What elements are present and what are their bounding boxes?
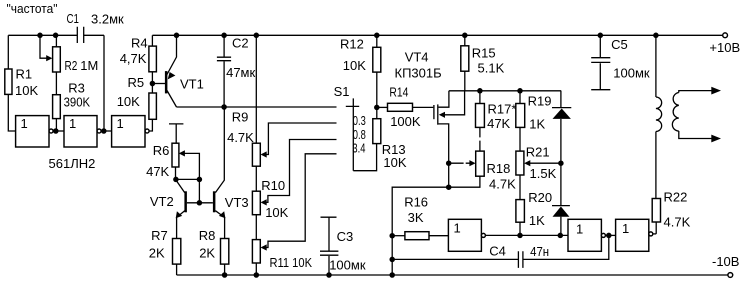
- MOSFET VT4 gate bar: [433, 105, 435, 119]
- svg-text:-10В: -10В: [712, 254, 739, 269]
- node: R11 bottom dot: [254, 272, 260, 278]
- resistor R3: [53, 95, 61, 119]
- svg-text:4,7K: 4,7K: [120, 51, 147, 66]
- inverter gate DD1.2: [64, 116, 97, 147]
- svg-text:4.7K: 4.7K: [664, 214, 691, 229]
- wire: R6 bottom to node: [176, 167, 200, 179]
- resistor R15: [464, 35, 466, 46]
- wire: R2 to R3: [55, 72, 57, 95]
- arrowhead into R10: [261, 199, 267, 205]
- potentiometer R11: [252, 240, 260, 263]
- wire: R17-R18 gang link (gapped): [479, 127, 481, 151]
- svg-text:100мк: 100мк: [329, 257, 366, 272]
- arrowhead into R9: [261, 151, 267, 157]
- svg-text:4.7K: 4.7K: [489, 177, 516, 192]
- svg-text:R21: R21: [526, 144, 550, 159]
- wire: R10 wiper to S1 contact 3: [264, 140, 337, 203]
- transistor VT3: [213, 191, 216, 212]
- svg-text:1: 1: [69, 116, 76, 131]
- svg-text:R20: R20: [528, 190, 552, 205]
- svg-text:R9: R9: [232, 109, 249, 124]
- resistor R5: [149, 93, 157, 119]
- svg-text:R8: R8: [199, 228, 216, 243]
- svg-text:+10В: +10В: [709, 40, 740, 55]
- wire: R18 bottom to drop line: [392, 176, 480, 275]
- node: gate2 output dot: [101, 128, 107, 134]
- svg-text:10K: 10K: [15, 83, 38, 98]
- arrowhead into R6: [179, 150, 185, 156]
- svg-text:R1: R1: [16, 67, 33, 82]
- svg-text:R2: R2: [65, 58, 78, 73]
- inverter gate DD1.4: [448, 219, 481, 251]
- svg-text:2K: 2K: [149, 245, 165, 260]
- node: C5 rail dot: [598, 33, 604, 39]
- resistor R12: [376, 35, 378, 47]
- svg-text:1: 1: [117, 116, 124, 131]
- svg-text:C4: C4: [489, 244, 506, 259]
- arrowhead into R18: [469, 160, 475, 166]
- node: wiper dot on rail: [37, 33, 43, 39]
- svg-text:1M: 1M: [80, 58, 98, 73]
- capacitor C2: [223, 35, 225, 57]
- arrowhead into R2: [46, 55, 52, 61]
- transformer T1 primary: [655, 35, 657, 97]
- wire: R6 wiper: [183, 153, 200, 203]
- terminal -10V: [728, 273, 733, 278]
- transistor VT2: [176, 180, 185, 193]
- node: VD2 bottom dot: [558, 233, 564, 239]
- svg-text:3K: 3K: [408, 210, 424, 225]
- svg-text:100K: 100K: [390, 114, 421, 129]
- resistor R1: [7, 35, 9, 69]
- svg-text:100мк: 100мк: [613, 66, 650, 81]
- wire: secondary top output with arrow: [679, 91, 713, 93]
- svg-text:R22: R22: [664, 190, 688, 205]
- potentiometer R9: [252, 143, 260, 166]
- svg-text:47мк: 47мк: [226, 65, 255, 80]
- arrowhead into R11: [261, 244, 267, 250]
- diode VD1: [560, 91, 562, 107]
- svg-text:1: 1: [622, 221, 629, 236]
- svg-text:R11 10K: R11 10K: [270, 255, 313, 270]
- wire: source node rail y91: [449, 90, 561, 92]
- resistor R14: [377, 106, 388, 108]
- svg-text:390K: 390K: [64, 94, 91, 109]
- svg-text:1K: 1K: [529, 117, 545, 132]
- wire: top-left rail (частота net): [8, 34, 77, 36]
- node: gate1 output dot: [53, 128, 59, 134]
- node: wiper/diode line dot: [558, 160, 564, 166]
- diode VD2: [552, 205, 570, 207]
- svg-text:R17*: R17*: [488, 101, 517, 116]
- resistor R16: [392, 235, 405, 237]
- node: VT1 base dot: [150, 81, 156, 87]
- potentiometer R10: [252, 191, 260, 215]
- svg-text:S1: S1: [334, 84, 350, 99]
- svg-text:1: 1: [576, 221, 583, 236]
- svg-text:R15: R15: [472, 46, 496, 61]
- arrowhead into R21: [524, 160, 530, 166]
- capacitor C5 with chassis stub: [599, 35, 601, 57]
- svg-text:C2: C2: [232, 35, 249, 50]
- svg-text:R7: R7: [151, 228, 168, 243]
- node: R9 rail dot: [254, 33, 260, 39]
- potentiometer R18: [476, 151, 485, 176]
- resistor R20: [516, 200, 525, 223]
- node: transformer rail dot: [653, 33, 659, 39]
- svg-text:R6: R6: [153, 143, 170, 158]
- MOSFET VT4 drain lead up to node: [439, 91, 449, 107]
- node: R19 top dot: [517, 88, 523, 94]
- switch S1 frame bottom and riser to R13: [353, 144, 376, 171]
- svg-text:10K: 10K: [265, 205, 288, 220]
- node: gate5 out dot: [606, 233, 612, 239]
- potentiometer R21: [516, 151, 524, 175]
- svg-text:561ЛН2: 561ЛН2: [49, 156, 96, 171]
- svg-text:R3: R3: [68, 81, 85, 96]
- svg-text:R12: R12: [340, 37, 364, 52]
- svg-text:1K: 1K: [529, 213, 545, 228]
- wire: gate5 out to gate6 in: [605, 234, 615, 236]
- node: source/R18 bottom wire dot: [446, 184, 452, 190]
- node: R6/VT2 collector dot: [173, 177, 179, 183]
- transistor VT1: [154, 83, 165, 85]
- resistor R4: [151, 35, 153, 46]
- resistor R7: [173, 239, 181, 265]
- svg-text:1: 1: [454, 220, 461, 235]
- potentiometer R17*: [479, 91, 481, 104]
- svg-text:47н: 47н: [530, 244, 549, 259]
- wire: R9 wiper to S1 contact 2: [264, 123, 337, 155]
- wire: +10V top rail: [152, 34, 722, 36]
- node: VT1 emitter to rail dot: [174, 33, 180, 39]
- node: R2 top dot: [53, 33, 59, 39]
- resistor R13: [373, 119, 381, 144]
- node: R20 bottom dot: [517, 233, 523, 239]
- node: C2 top dot: [221, 33, 227, 39]
- wire: R21 to R20: [519, 175, 521, 200]
- svg-text:R5: R5: [128, 75, 145, 90]
- wire: R18 wiper (gapped) from source line: [449, 162, 472, 164]
- node: R12 rail dot: [374, 33, 380, 39]
- chassis stub over R6: [169, 124, 183, 143]
- svg-text:5.1K: 5.1K: [478, 61, 505, 76]
- svg-text:R14: R14: [389, 84, 408, 99]
- svg-text:VT2: VT2: [150, 194, 174, 209]
- wire: gate1 to gate2: [53, 130, 64, 132]
- capacitor C1: [77, 27, 83, 43]
- svg-text:0.3: 0.3: [353, 113, 366, 128]
- svg-text:4.7K: 4.7K: [227, 130, 254, 145]
- node: C3 bottom dot: [326, 272, 332, 278]
- svg-text:C1: C1: [67, 11, 80, 26]
- wire: R2 wiper from rail: [40, 35, 48, 58]
- node: drop/R16 dot: [389, 233, 395, 239]
- inverter gate DD1.5: [568, 219, 601, 251]
- node: base tie dot: [197, 200, 203, 206]
- svg-text:C5: C5: [611, 37, 628, 52]
- svg-text:C3: C3: [337, 229, 354, 244]
- svg-text:VT3: VT3: [225, 195, 249, 210]
- wire: R9 to R10: [255, 166, 257, 191]
- svg-text:3.4: 3.4: [352, 140, 365, 155]
- MOSFET VT4 channel bar: [437, 104, 439, 124]
- svg-text:R19: R19: [528, 93, 552, 108]
- inverter gate DD1.3: [112, 116, 145, 147]
- capacitor C4 feedback: [523, 235, 609, 259]
- node: R17 top dot: [477, 88, 483, 94]
- node: C2/VT3 collector dot: [221, 104, 227, 110]
- switch S1 pole cross: [346, 98, 359, 170]
- potentiometer R6: [172, 143, 179, 167]
- wire: R10 to R11: [255, 215, 257, 240]
- potentiometer R2: [53, 47, 61, 72]
- wire: gate4 out to gate5 in: [485, 234, 568, 236]
- terminal +10V: [723, 33, 728, 38]
- node: R15 rail dot: [462, 33, 468, 39]
- node: source/R18 wiper dot: [446, 160, 452, 166]
- wire: gate2 to gate3: [101, 130, 112, 132]
- node: drop/rail dot: [389, 272, 395, 278]
- resistor R8: [221, 239, 229, 265]
- wire: R21 wiper to diode line: [529, 162, 561, 164]
- wire: gate6 out stub to R22: [653, 233, 656, 235]
- wire: rail after C1 to down-drop: [84, 34, 104, 36]
- node: drop/C4 wire dot: [389, 257, 395, 263]
- transformer T1 secondary: [672, 93, 678, 132]
- inverter gate DD1.6: [616, 219, 649, 251]
- svg-text:47K: 47K: [146, 164, 169, 179]
- svg-text:VT1: VT1: [180, 76, 204, 91]
- wire: -10V bottom rail: [177, 274, 728, 276]
- MOSFET VT4 source lead down: [439, 124, 449, 187]
- MOSFET VT4 substrate lead with arrow: [443, 91, 465, 115]
- wire: VT1 collector line to S1 contact 1: [177, 106, 337, 108]
- svg-text:2K: 2K: [199, 245, 215, 260]
- wire: C1 output drop to gate2/gate3 node: [103, 35, 105, 131]
- svg-text:КП301Б: КП301Б: [395, 65, 442, 80]
- svg-text:R16: R16: [404, 195, 428, 210]
- node: wiper riser dot: [197, 177, 203, 183]
- resistor R19: [519, 91, 521, 104]
- node: R12/R13/R14 dot: [374, 105, 380, 111]
- wire: R11 bottom to rail: [255, 263, 257, 275]
- svg-text:VT4: VT4: [405, 50, 429, 65]
- wire: R11 wiper to S1 contact 4: [264, 154, 337, 248]
- svg-text:R4: R4: [131, 35, 148, 50]
- capacitor C3 with chassis stub: [321, 217, 337, 250]
- inverter gate DD1.1: [16, 116, 49, 147]
- svg-text:R18: R18: [487, 161, 511, 176]
- svg-text:10K: 10K: [383, 155, 406, 170]
- svg-text:1.5K: 1.5K: [530, 166, 557, 181]
- wire: gate3 output up to R5: [149, 119, 152, 131]
- svg-text:3.2мк: 3.2мк: [91, 11, 124, 26]
- svg-text:R10: R10: [261, 178, 285, 193]
- resistor R22: [652, 199, 660, 223]
- wire: R9 feed from rail: [255, 35, 257, 143]
- svg-text:1: 1: [21, 116, 28, 131]
- wire: secondary bottom output with arrow: [679, 131, 713, 139]
- svg-text:47K: 47K: [487, 116, 510, 131]
- svg-text:10K: 10K: [117, 94, 140, 109]
- svg-text:"частота": "частота": [7, 1, 58, 16]
- svg-text:10K: 10K: [343, 58, 366, 73]
- node: R8 bottom dot: [222, 272, 228, 278]
